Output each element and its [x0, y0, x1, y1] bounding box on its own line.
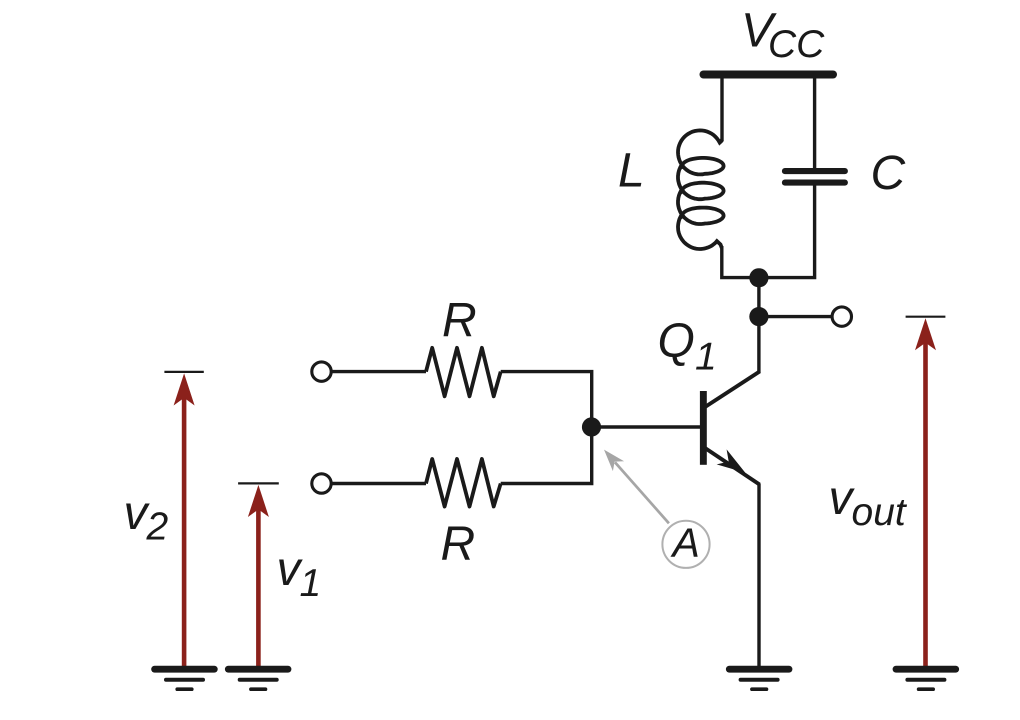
v2 source top bar — [164, 371, 203, 373]
wire resistor bottom to node — [501, 427, 592, 484]
transistor Q1 base bar — [700, 391, 707, 465]
svg-text:L: L — [618, 145, 645, 198]
wire rail to inductor — [720, 75, 723, 142]
wire resistor top to node — [501, 372, 592, 427]
svg-text:CC: CC — [768, 23, 825, 66]
node A callout circle — [662, 521, 709, 568]
wire emitter vertical — [757, 484, 760, 667]
resistor R bottom — [426, 459, 501, 507]
vout arrow — [915, 318, 936, 666]
capacitor C plates — [782, 168, 848, 186]
label v1 — [277, 543, 322, 605]
power rail VCC — [704, 71, 834, 79]
gray callout arrow to node A — [604, 450, 624, 472]
output terminal — [832, 307, 851, 326]
label v2 — [124, 487, 169, 549]
svg-text:1: 1 — [695, 336, 717, 379]
label L — [618, 145, 645, 198]
input terminal top — [312, 362, 331, 381]
wire input bottom lead — [332, 482, 427, 485]
wire node to base — [592, 425, 701, 428]
resistor R top — [426, 348, 501, 397]
ground under Q1 — [726, 666, 793, 691]
ground under vout — [893, 666, 960, 691]
wire capacitor to tank bottom — [759, 186, 815, 278]
svg-text:R: R — [442, 294, 477, 347]
label A — [670, 520, 700, 566]
v1 source top bar — [238, 482, 279, 484]
svg-text:R: R — [441, 518, 476, 571]
svg-text:out: out — [852, 491, 908, 534]
transistor Q1 collector diagonal — [705, 371, 760, 407]
label R top — [442, 294, 477, 347]
label R bottom — [441, 518, 476, 571]
transistor Q1 emitter arrowhead — [717, 449, 746, 472]
junction dot output — [749, 307, 768, 326]
svg-text:A: A — [670, 520, 700, 566]
label C — [871, 147, 906, 200]
wire collector vertical — [757, 278, 760, 373]
ground under v1 — [225, 666, 292, 691]
v1 arrow — [248, 485, 269, 667]
v2 arrow — [174, 373, 195, 667]
svg-text:2: 2 — [146, 506, 169, 549]
wire output — [759, 315, 833, 318]
transistor Q1 emitter diagonal — [705, 448, 760, 485]
wire rail to capacitor — [813, 75, 816, 169]
inductor L1 coil — [678, 130, 724, 249]
node A junction dot — [582, 417, 601, 436]
vout source top bar — [906, 316, 946, 318]
ground under v2 — [151, 666, 218, 691]
wire input top lead — [332, 370, 427, 373]
svg-text:C: C — [871, 147, 906, 200]
input terminal bottom — [312, 474, 331, 493]
label vout — [829, 472, 908, 534]
wire inductor to tank bottom — [722, 246, 757, 278]
svg-text:Q: Q — [658, 315, 695, 368]
svg-text:1: 1 — [300, 562, 322, 605]
label VCC — [741, 5, 825, 66]
label Q1 — [658, 315, 717, 379]
junction dot tank/collector — [749, 268, 768, 287]
